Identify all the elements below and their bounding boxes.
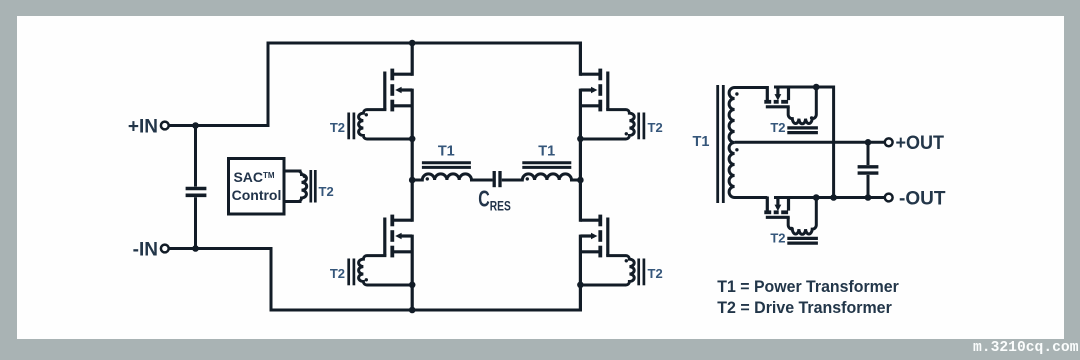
phase dot T1 left <box>426 177 429 180</box>
svg-text:T2: T2 <box>648 266 663 281</box>
svg-text:T2: T2 <box>330 266 345 281</box>
junction dot Q1 source <box>409 136 416 143</box>
junction dot +OUT cap <box>865 139 872 146</box>
phase dot T1 secondary bottom <box>735 148 738 151</box>
transformer T2 drive Q1 <box>349 110 413 140</box>
wire left bridge leg <box>411 42 414 312</box>
wire Q5 source rail to -OUT link <box>774 87 834 198</box>
transistor Q4 lower-right MOSFET <box>580 215 607 258</box>
transistor Q5 upper synchronous rectifier <box>764 86 789 107</box>
svg-text:Control: Control <box>232 187 282 203</box>
junction dot Q4 source <box>577 282 584 289</box>
capacitor C-OUT <box>858 167 879 173</box>
transformer T2 control primary coil <box>284 171 307 202</box>
junction dot right midpoint <box>577 177 584 184</box>
svg-text:T1: T1 <box>693 134 710 150</box>
svg-text:m.3210cq.com: m.3210cq.com <box>973 338 1079 356</box>
junction dot input bottom <box>192 245 199 252</box>
node -OUT terminal <box>885 194 893 202</box>
node +IN terminal <box>161 122 169 130</box>
controller U1 SAC Control box <box>229 159 285 215</box>
capacitor C-OUT branch lower <box>867 175 870 198</box>
transformer T2 drive Q6 <box>787 198 818 244</box>
svg-text:-OUT: -OUT <box>899 188 946 209</box>
transformer T2 drive Q2 <box>580 110 644 140</box>
svg-text:T2: T2 <box>648 120 663 135</box>
wire +IN to top rail <box>170 43 583 126</box>
svg-text:+IN: +IN <box>128 116 158 137</box>
transformer T2 control core <box>311 170 316 203</box>
svg-text:T1: T1 <box>538 144 555 160</box>
transistor Q6 lower synchronous rectifier <box>764 197 789 218</box>
wire SAC control to T2 primary top <box>284 170 302 173</box>
phase dot T1 secondary top <box>735 92 738 95</box>
transistor Q2 upper-right MOSFET <box>580 69 607 112</box>
junction dot input top <box>192 122 199 129</box>
core T1 right <box>522 163 571 168</box>
node -IN terminal <box>161 245 169 253</box>
junction dot top rail <box>409 40 416 47</box>
svg-text:-IN: -IN <box>133 239 158 260</box>
svg-text:+OUT: +OUT <box>896 133 945 154</box>
junction dot Q6 source T2 <box>813 194 820 201</box>
svg-text:T1 = Power Transformer: T1 = Power Transformer <box>717 277 899 296</box>
wire -IN to bottom rail <box>170 249 583 311</box>
svg-text:T2: T2 <box>319 184 334 199</box>
capacitor C-RES <box>494 171 500 187</box>
transformer T1 output core <box>718 85 724 203</box>
phase dot T1 right <box>526 177 529 180</box>
phase dot T2 control <box>303 175 306 178</box>
junction dot source link <box>830 194 837 201</box>
wire center tap to +OUT <box>735 141 886 144</box>
node +OUT terminal <box>885 138 893 146</box>
wire Q6 source rail to -OUT <box>774 196 885 199</box>
junction dot -OUT cap <box>865 194 872 201</box>
svg-text:T2 = Drive Transformer: T2 = Drive Transformer <box>717 298 892 317</box>
transistor Q1 upper-left MOSFET <box>385 69 412 112</box>
inductor T1 left resonant winding <box>412 174 492 180</box>
transformer T2 drive Q4 <box>580 256 644 286</box>
transformer T2 drive Q3 <box>349 256 413 286</box>
svg-text:T2: T2 <box>770 120 785 135</box>
wire SAC control to T2 primary bottom <box>284 200 302 203</box>
wire capacitor branch upper <box>194 126 197 187</box>
svg-text:T1: T1 <box>438 144 455 160</box>
junction dot Q3 source <box>409 282 416 289</box>
transistor Q3 lower-left MOSFET <box>385 215 412 258</box>
wire capacitor branch lower <box>194 197 197 248</box>
label SAC Control <box>232 169 282 203</box>
junction dot left midpoint <box>409 177 416 184</box>
transformer T1 output secondary winding <box>729 88 767 198</box>
svg-text:T2: T2 <box>770 231 785 246</box>
junction dot Q5 source T2 <box>813 84 820 91</box>
svg-text:T2: T2 <box>330 120 345 135</box>
junction dot Q2 source <box>577 136 584 143</box>
core T1 left <box>422 163 471 168</box>
wire right bridge leg <box>579 42 582 312</box>
capacitor C-IN <box>186 189 207 196</box>
inductor T1 right resonant winding <box>502 174 581 180</box>
capacitor C-OUT branch upper <box>867 142 870 165</box>
transformer T2 drive Q5 <box>787 87 818 133</box>
junction dot bottom rail <box>409 307 416 314</box>
